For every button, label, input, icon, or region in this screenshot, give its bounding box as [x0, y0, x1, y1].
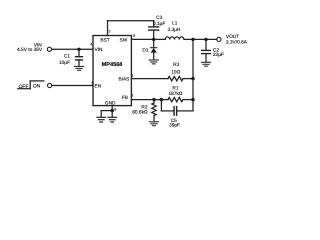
svg-text:R1: R1	[172, 86, 178, 92]
ground D1	[149, 60, 158, 64]
node R3/rail junction	[191, 77, 194, 80]
svg-text:39pF: 39pF	[169, 123, 180, 129]
wire BIAS	[131, 78, 168, 80]
node GND junction	[111, 109, 114, 112]
wire VIN to IC	[52, 48, 93, 50]
svg-text:ON: ON	[33, 84, 41, 90]
node FB/C5 junction	[160, 98, 163, 101]
svg-text:C3: C3	[156, 15, 162, 21]
ground C2	[201, 62, 210, 66]
svg-text:FB: FB	[122, 95, 128, 101]
svg-text:VIN: VIN	[95, 47, 104, 53]
svg-text:4: 4	[90, 43, 92, 47]
svg-text:R2: R2	[141, 105, 147, 111]
IC U1 MP4568 body	[93, 36, 131, 106]
capacitor C1	[76, 49, 83, 66]
diode D1	[151, 39, 157, 59]
wire L1 to VOUT	[184, 38, 217, 40]
svg-text:D1: D1	[142, 48, 148, 54]
svg-text:1: 1	[131, 74, 133, 78]
node FB/R2 junction	[152, 98, 155, 101]
svg-text:VOUT: VOUT	[226, 34, 239, 40]
wire FB	[131, 99, 168, 101]
svg-text:22µF: 22µF	[213, 52, 224, 58]
capacitor C5 branch	[161, 100, 193, 116]
wire BST loop to C3	[108, 21, 154, 36]
svg-text:3: 3	[133, 34, 135, 38]
ground R2	[149, 122, 158, 126]
terminal VIN	[47, 47, 51, 51]
svg-text:MP4568: MP4568	[102, 62, 123, 68]
ground IC left	[97, 117, 106, 122]
wire right feedback rail	[192, 39, 194, 111]
svg-text:3.3V/0.6A: 3.3V/0.6A	[226, 40, 248, 46]
svg-text:BIAS: BIAS	[118, 76, 129, 82]
terminal EN	[48, 83, 52, 87]
wire R1 to rail	[183, 99, 193, 101]
svg-text:GND: GND	[105, 100, 116, 106]
svg-text:4.5V to 36V: 4.5V to 36V	[17, 47, 43, 53]
svg-text:EN: EN	[95, 83, 102, 89]
svg-text:SW: SW	[120, 37, 128, 43]
node C2 junction	[204, 38, 207, 41]
svg-text:OFF: OFF	[19, 84, 29, 90]
svg-text:6: 6	[114, 108, 116, 112]
terminal VOUT	[217, 37, 221, 41]
pin numbers	[90, 30, 135, 112]
svg-text:7: 7	[131, 94, 133, 98]
ground IC right	[108, 117, 117, 122]
ground C1	[74, 66, 83, 70]
node R1/rail junction	[191, 98, 194, 101]
resistor R2	[152, 100, 156, 122]
wire GND pin	[101, 106, 112, 117]
svg-text:3.3µH: 3.3µH	[167, 27, 180, 33]
inductor L1	[165, 37, 184, 39]
wire SW output line	[131, 38, 165, 40]
wire EN to IC	[52, 85, 93, 87]
node output/rail junction	[191, 38, 194, 41]
wire R3 to rail	[183, 78, 193, 80]
node VIN/C1 junction	[77, 48, 80, 51]
switch OFF/ON waveform	[18, 81, 44, 89]
svg-text:L1: L1	[172, 21, 178, 27]
svg-text:80.6kΩ: 80.6kΩ	[132, 110, 148, 116]
svg-text:R3: R3	[173, 62, 179, 68]
svg-text:187kΩ: 187kΩ	[169, 91, 183, 97]
svg-text:C1: C1	[64, 54, 70, 60]
svg-text:0.1µF: 0.1µF	[153, 21, 165, 27]
resistor R3	[168, 76, 183, 80]
node SW/C3/D1 junction	[152, 38, 155, 41]
svg-text:BST: BST	[100, 37, 109, 43]
capacitor C2	[202, 39, 211, 62]
svg-text:10µF: 10µF	[59, 60, 70, 66]
resistor R1	[168, 97, 183, 101]
capacitor C3	[149, 27, 159, 40]
IC pin labels	[95, 37, 130, 106]
svg-text:2: 2	[109, 30, 111, 34]
svg-text:5: 5	[92, 81, 94, 85]
svg-text:10Ω: 10Ω	[171, 69, 180, 75]
